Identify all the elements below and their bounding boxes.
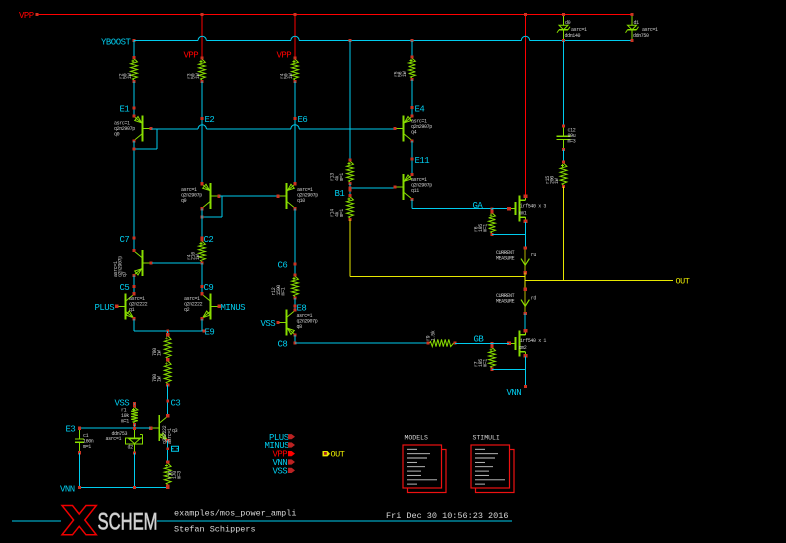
svg-text:1W: 1W	[157, 376, 163, 382]
wire Q11 emitter to GA	[411, 200, 413, 209]
node E8	[294, 298, 296, 310]
transistor Q7 pnp flipped	[142, 250, 144, 276]
net flag on Q3 emitter	[172, 446, 179, 451]
svg-text:E8: E8	[297, 304, 307, 314]
svg-text:examples/mos_power_ampli: examples/mos_power_ampli	[174, 509, 296, 519]
svg-text:VPP: VPP	[19, 11, 34, 21]
svg-text:1W: 1W	[157, 350, 163, 356]
svg-text:YBOOST: YBOOST	[101, 38, 132, 48]
resistor R17 tail lower	[164, 361, 171, 383]
svg-text:1W: 1W	[127, 73, 133, 79]
svg-text:q9: q9	[181, 198, 187, 204]
title separator line left	[12, 520, 61, 522]
svg-text:C8: C8	[278, 340, 288, 350]
wire RD to M2 drain	[524, 314, 526, 331]
wire OUT net jog	[524, 273, 526, 290]
node E9	[134, 330, 204, 332]
capacitor C12	[563, 126, 565, 136]
wire cap to VNN rail	[79, 453, 81, 488]
svg-text:m=1: m=1	[339, 173, 345, 181]
svg-text:d2: d2	[128, 445, 134, 451]
svg-text:VSS: VSS	[273, 466, 288, 476]
svg-text:irf540 x 1: irf540 x 1	[520, 338, 546, 344]
svg-text:ru: ru	[531, 252, 537, 258]
wire VNN rail bottom-left	[80, 487, 168, 489]
wire Q9/Q10 base line	[220, 195, 278, 197]
svg-text:1W: 1W	[288, 73, 294, 79]
wire YBOOST to R13	[349, 41, 351, 161]
resistor R14	[347, 197, 354, 218]
wire VPP drop to M1 drain	[525, 15, 527, 197]
resistor R9 horizontal	[430, 339, 454, 346]
resistor R10	[164, 464, 171, 485]
resistor R12	[292, 277, 299, 297]
svg-text:asrc=1: asrc=1	[106, 436, 122, 442]
node E1	[133, 82, 135, 116]
svg-text:SCHEM: SCHEM	[98, 509, 158, 536]
zener D2	[134, 428, 136, 438]
svg-text:m=1: m=1	[483, 359, 489, 367]
mosfet M2	[519, 330, 521, 356]
wire YBOOST to R5	[411, 41, 413, 58]
svg-text:q10: q10	[297, 198, 305, 204]
wire R9 to GB	[455, 342, 492, 344]
svg-text:q2: q2	[184, 307, 190, 313]
svg-text:VNN: VNN	[507, 388, 522, 398]
transistor Q0 pnp	[142, 116, 144, 142]
wire Q3 emitter stub	[167, 441, 169, 462]
svg-text:irf540 x 3: irf540 x 3	[520, 204, 546, 210]
svg-text:1.5k: 1.5k	[431, 330, 437, 341]
resistor R5c	[199, 242, 206, 262]
diode D0	[563, 15, 565, 26]
svg-text:VPP: VPP	[277, 51, 292, 61]
svg-text:m=1: m=1	[281, 287, 287, 295]
svg-text:VSS: VSS	[261, 319, 276, 329]
svg-text:E9: E9	[205, 328, 215, 338]
wire Q9 collector down	[201, 209, 203, 240]
svg-text:E6: E6	[298, 115, 308, 125]
svg-text:xm2: xm2	[519, 345, 527, 351]
svg-text:MEASURE: MEASURE	[496, 256, 515, 262]
wire VPP drop to r3	[201, 15, 203, 59]
wire C2 to C9	[201, 263, 203, 294]
wire Q10 collector down to C6	[294, 209, 296, 275]
wire OUT net left segment	[350, 275, 525, 277]
mosfet M1	[519, 196, 521, 222]
transistor Q1 npn PLUS	[125, 293, 127, 319]
svg-text:PLUS: PLUS	[95, 303, 115, 313]
svg-text:q4: q4	[411, 129, 417, 135]
resistor R16 tail upper	[167, 331, 169, 335]
wire Q0 base loop	[156, 129, 158, 149]
svg-text:m=1: m=1	[483, 224, 489, 232]
svg-text:E1: E1	[120, 105, 130, 115]
wire Q1 emitter to E9 line	[133, 319, 135, 331]
wire VPP rail	[38, 14, 632, 16]
node B1	[349, 184, 351, 196]
transistor Q8 pnp mirrored flipped	[286, 310, 288, 336]
svg-text:E4: E4	[415, 105, 425, 115]
wire M2 source to VNN	[525, 369, 527, 386]
wire base line to Q4 with hops	[152, 128, 199, 130]
resistor R7	[491, 343, 493, 346]
svg-text:MODELS: MODELS	[405, 435, 429, 442]
node C3	[167, 385, 169, 416]
svg-text:q3: q3	[172, 428, 178, 434]
svg-text:q7: q7	[122, 271, 128, 277]
svg-text:OUT: OUT	[331, 450, 345, 460]
probe RU current measure	[524, 248, 526, 273]
transistor Q9 pnp	[210, 183, 212, 209]
svg-text:d0: d0	[565, 20, 571, 26]
node E2	[201, 82, 203, 184]
node E11	[411, 141, 413, 175]
svg-text:Stefan Schippers: Stefan Schippers	[174, 525, 256, 535]
svg-text:E3: E3	[66, 425, 76, 435]
wire GA to M1 gate	[492, 208, 509, 210]
wire VPP drop to r4	[294, 15, 296, 59]
svg-text:m=3: m=3	[177, 471, 183, 479]
svg-text:ddn750: ddn750	[633, 33, 649, 39]
svg-text:ddn140: ddn140	[565, 33, 581, 39]
svg-text:1W: 1W	[195, 73, 201, 79]
svg-text:q0: q0	[114, 131, 120, 137]
resistor R3	[199, 60, 206, 81]
svg-text:VNN: VNN	[60, 485, 75, 495]
svg-text:m=1: m=1	[339, 209, 345, 217]
svg-text:C5: C5	[120, 283, 130, 293]
wire zener to VNN rail	[134, 453, 136, 488]
svg-text:1W: 1W	[402, 71, 408, 77]
wire Q9 collector loop	[221, 196, 223, 217]
pin OUT	[323, 451, 331, 456]
svg-text:1W: 1W	[554, 178, 560, 184]
wire Q7 base to C2 node	[152, 262, 202, 264]
wire M1 source down	[525, 235, 527, 249]
wire E3 base line	[80, 427, 151, 429]
resistor R4	[292, 60, 299, 81]
wire R14 to OUT net	[349, 220, 351, 277]
svg-text:GA: GA	[473, 201, 484, 211]
svg-text:m=1: m=1	[121, 418, 129, 424]
diode D1	[631, 15, 633, 26]
wire OUT net right segment	[525, 279, 673, 281]
wire M2 source loop	[525, 357, 527, 370]
wire C8 corner	[294, 335, 296, 343]
svg-text:d1: d1	[634, 20, 640, 26]
XSCHEM logo X	[62, 506, 96, 535]
svg-text:C9: C9	[204, 283, 214, 293]
svg-text:E2: E2	[205, 115, 215, 125]
svg-text:VPP: VPP	[184, 51, 199, 61]
node C5	[133, 276, 135, 294]
wire YBOOST rail with hops	[134, 40, 198, 42]
title separator line right	[157, 520, 512, 522]
transistor Q10 pnp mirrored	[286, 183, 288, 209]
transistor Q11 npn	[403, 174, 405, 200]
wire YBOOST drop to C12	[563, 41, 565, 127]
resistor R1	[134, 404, 136, 407]
transistor Q2 npn MINUS	[210, 293, 212, 319]
resistor R2	[133, 41, 135, 58]
svg-text:m=1: m=1	[83, 444, 91, 450]
wire B1 to Q11 base	[350, 187, 395, 189]
wire R15 to OUT net	[563, 187, 565, 281]
svg-text:m=3: m=3	[568, 138, 576, 144]
svg-text:E11: E11	[415, 156, 430, 166]
wire Q2 emitter to E9 line	[201, 319, 203, 331]
svg-text:C3: C3	[171, 399, 181, 409]
wire GB to M2 gate	[492, 342, 509, 344]
svg-text:MINUS: MINUS	[221, 303, 246, 313]
svg-text:q1: q1	[129, 307, 135, 313]
svg-text:q11: q11	[411, 188, 419, 194]
svg-text:MEASURE: MEASURE	[496, 299, 515, 305]
resistor R13	[347, 162, 354, 183]
svg-text:q8: q8	[297, 324, 303, 330]
svg-text:xm1: xm1	[519, 211, 527, 217]
svg-text:Fri Dec 30 10:56:23 2016: Fri Dec 30 10:56:23 2016	[386, 511, 508, 521]
resistor R6	[491, 209, 493, 212]
svg-text:OUT: OUT	[676, 277, 690, 287]
transistor Q4 npn	[403, 116, 405, 142]
svg-text:STIMULI: STIMULI	[473, 435, 500, 442]
resistor R15	[560, 164, 567, 186]
wire C12 to R15	[563, 150, 565, 163]
node E6	[294, 82, 296, 184]
node E4	[411, 80, 413, 117]
probe RD current measure	[524, 289, 526, 313]
svg-text:rd: rd	[531, 296, 537, 302]
svg-text:1W: 1W	[195, 254, 201, 260]
svg-text:B1: B1	[335, 189, 345, 199]
svg-text:C7: C7	[120, 235, 130, 245]
wire M1 source loop	[525, 222, 527, 235]
transistor Q3 npn	[158, 415, 160, 441]
resistor R5	[409, 59, 416, 79]
svg-text:C6: C6	[278, 261, 288, 271]
capacitor C1	[79, 428, 81, 439]
